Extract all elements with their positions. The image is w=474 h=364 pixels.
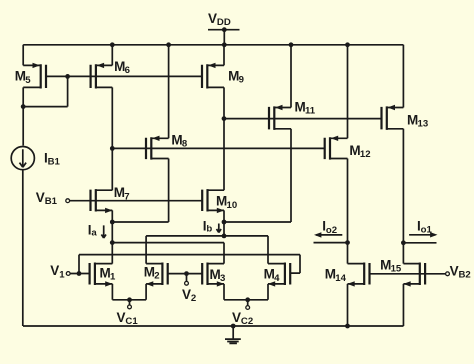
svg-text:o1: o1: [421, 225, 433, 236]
svg-text:7: 7: [124, 191, 129, 202]
svg-text:C1: C1: [125, 316, 138, 327]
svg-text:B2: B2: [459, 270, 471, 281]
svg-text:V: V: [36, 190, 45, 205]
svg-text:V: V: [232, 310, 241, 325]
svg-text:14: 14: [335, 273, 346, 284]
svg-text:V: V: [450, 263, 459, 278]
svg-text:1: 1: [59, 269, 65, 280]
svg-text:9: 9: [239, 75, 244, 86]
svg-text:DD: DD: [217, 17, 231, 28]
svg-text:2: 2: [154, 271, 159, 282]
svg-text:1: 1: [110, 272, 116, 283]
svg-text:B1: B1: [48, 157, 61, 168]
svg-text:V: V: [117, 310, 126, 325]
svg-text:B1: B1: [45, 196, 58, 207]
svg-text:13: 13: [418, 119, 429, 130]
svg-text:12: 12: [360, 149, 371, 160]
svg-text:3: 3: [220, 273, 225, 284]
svg-text:a: a: [91, 228, 97, 239]
svg-text:8: 8: [182, 139, 188, 150]
svg-text:o2: o2: [326, 225, 337, 236]
svg-text:V: V: [182, 287, 191, 302]
svg-text:C2: C2: [241, 316, 253, 327]
svg-text:5: 5: [25, 75, 31, 86]
svg-text:10: 10: [227, 200, 238, 211]
svg-text:V: V: [208, 11, 217, 26]
svg-text:4: 4: [274, 273, 280, 284]
svg-text:2: 2: [191, 293, 196, 304]
svg-text:11: 11: [305, 106, 316, 117]
svg-text:b: b: [206, 223, 212, 234]
svg-text:15: 15: [391, 264, 402, 275]
svg-text:6: 6: [125, 65, 130, 76]
svg-text:V: V: [50, 263, 59, 278]
